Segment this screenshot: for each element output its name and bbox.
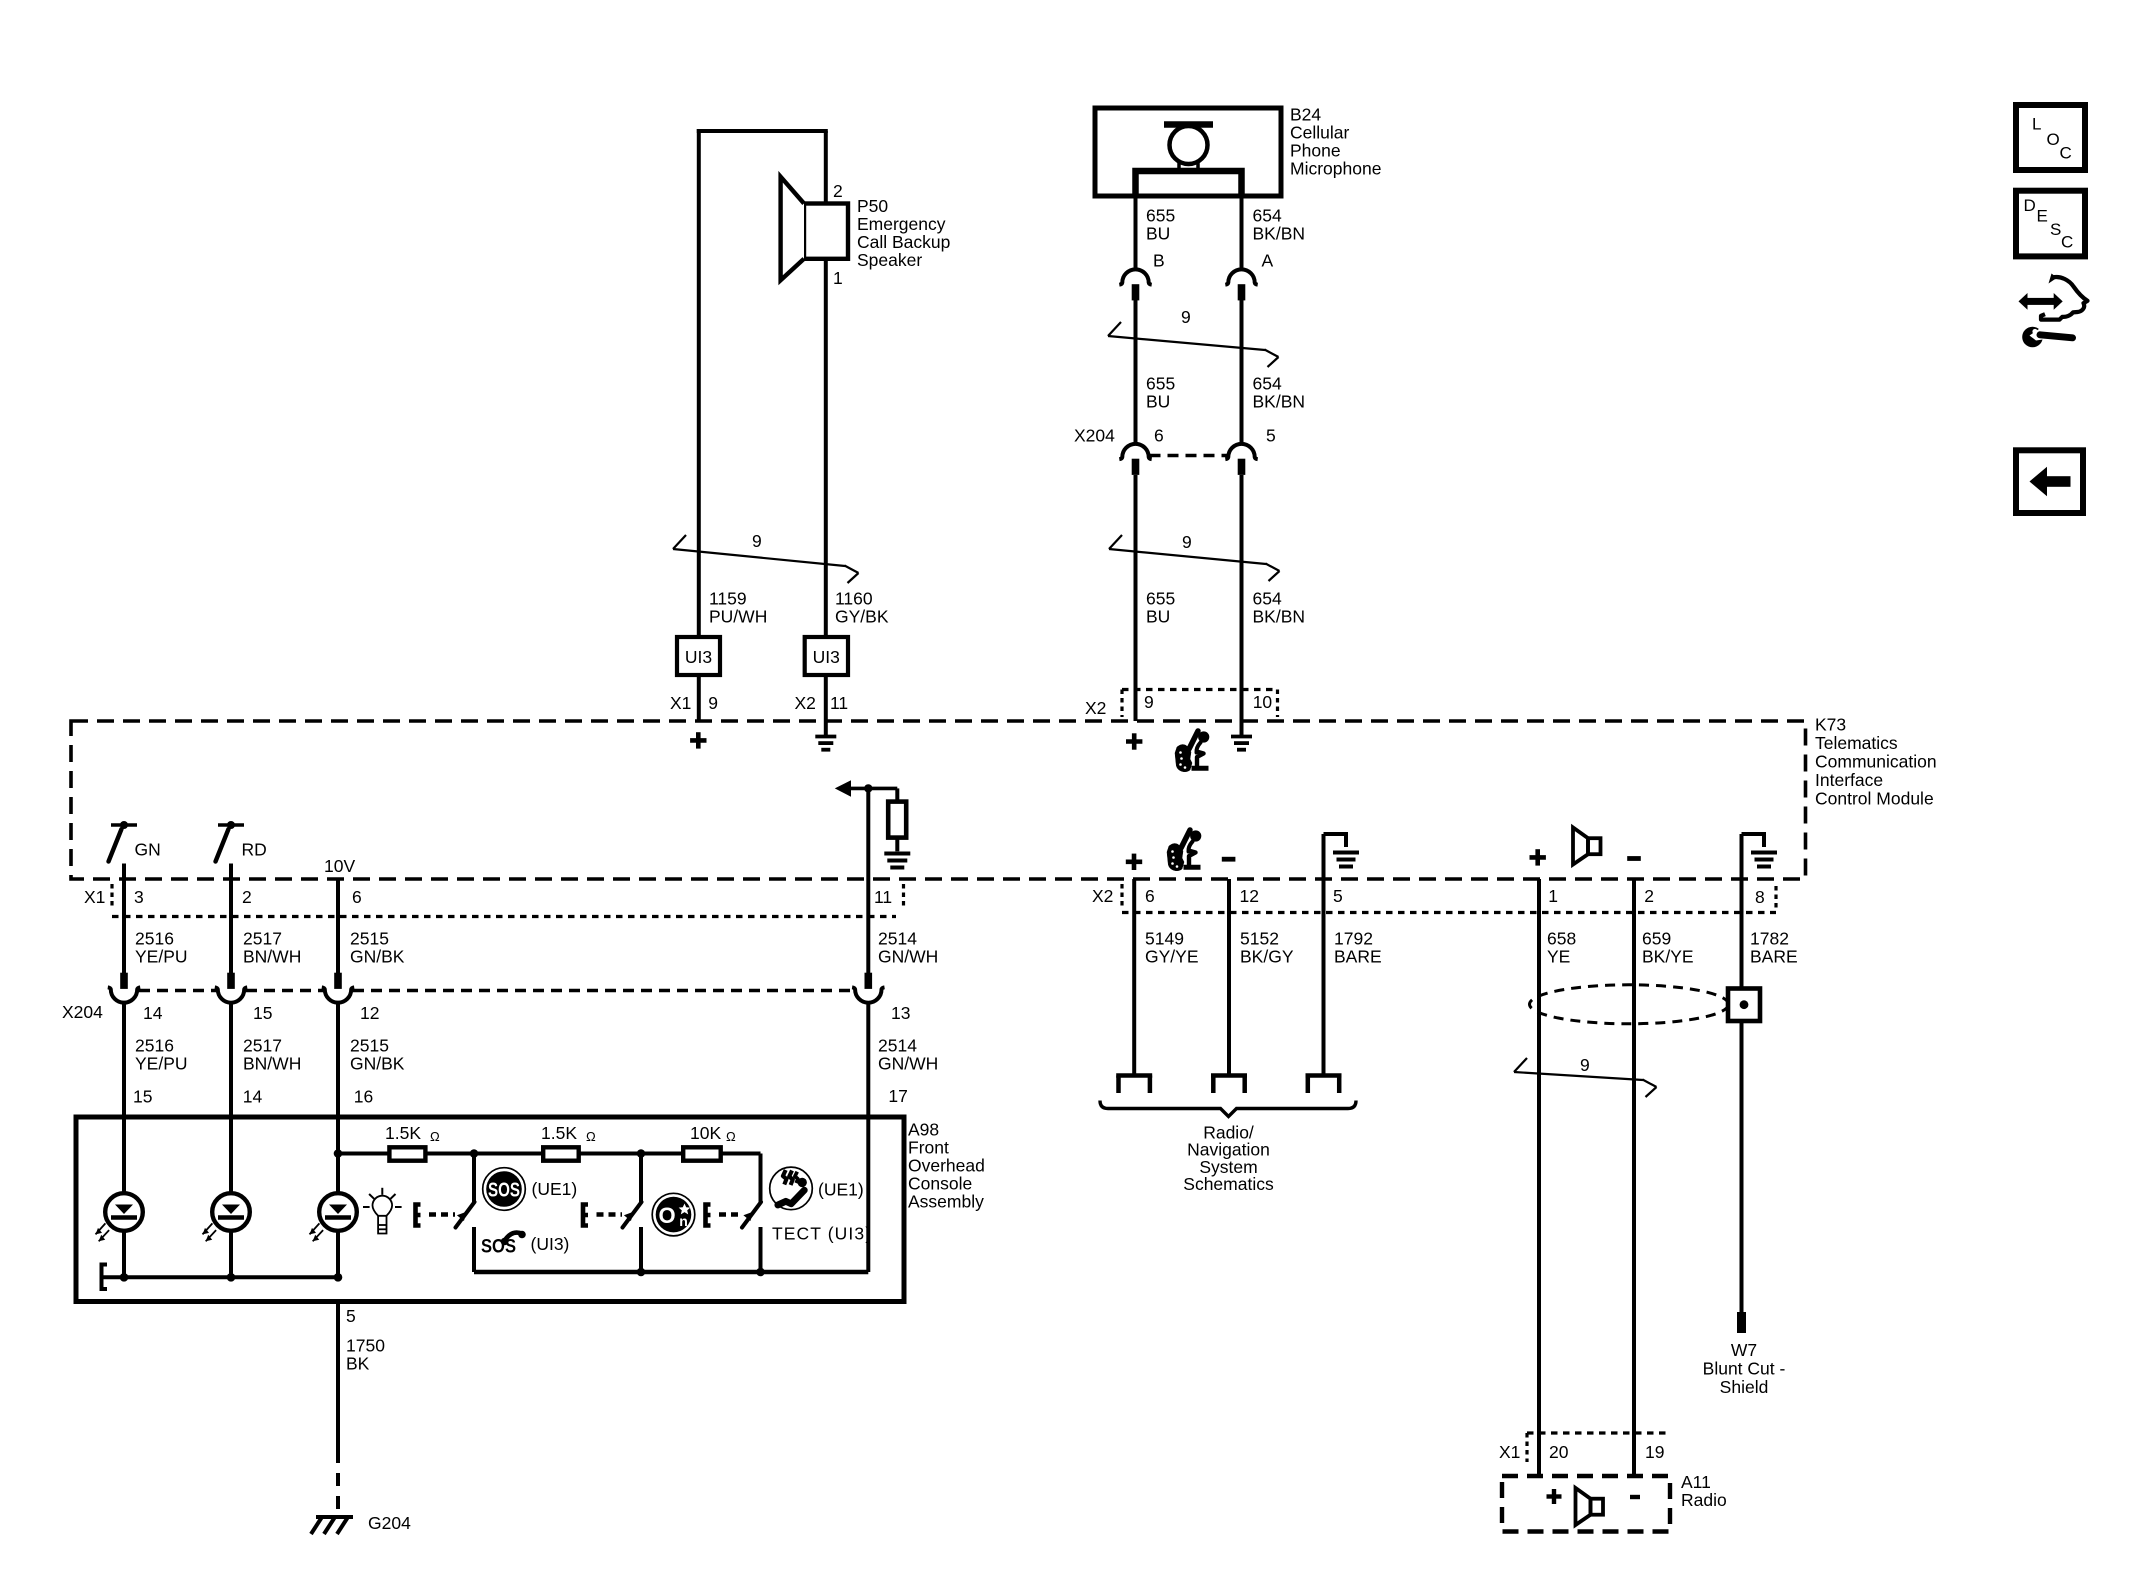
svg-text:12: 12	[360, 1003, 379, 1023]
svg-text:GN/WH: GN/WH	[878, 947, 938, 967]
svg-text:UI3: UI3	[685, 647, 712, 667]
svg-text:5: 5	[1266, 426, 1276, 446]
svg-text:8: 8	[1755, 887, 1765, 907]
svg-text:BU: BU	[1146, 224, 1170, 244]
svg-text:(UE1): (UE1)	[532, 1179, 578, 1199]
svg-text:C: C	[2061, 233, 2073, 252]
svg-text:D: D	[2024, 196, 2036, 215]
svg-text:2: 2	[833, 181, 843, 201]
svg-text:2515: 2515	[350, 1036, 389, 1056]
svg-text:L: L	[2032, 115, 2041, 134]
svg-text:2: 2	[1644, 886, 1654, 906]
svg-text:G204: G204	[368, 1513, 411, 1533]
svg-text:GN/BK: GN/BK	[350, 947, 405, 967]
svg-text:GN: GN	[135, 840, 161, 860]
svg-text:W7: W7	[1731, 1340, 1757, 1360]
svg-text:9: 9	[1580, 1055, 1590, 1075]
svg-text:10V: 10V	[324, 856, 355, 876]
svg-text:Call Backup: Call Backup	[857, 232, 950, 252]
svg-text:Phone: Phone	[1290, 141, 1341, 161]
svg-text:Ω: Ω	[430, 1129, 440, 1144]
svg-text:SOS: SOS	[481, 1236, 516, 1258]
svg-text:BK/BN: BK/BN	[1253, 607, 1306, 627]
svg-text:BU: BU	[1146, 607, 1170, 627]
svg-text:1792: 1792	[1334, 929, 1373, 949]
svg-text:B24: B24	[1290, 105, 1321, 125]
svg-text:1782: 1782	[1750, 929, 1789, 949]
svg-text:X1: X1	[670, 693, 691, 713]
svg-text:2: 2	[242, 887, 252, 907]
svg-text:P50: P50	[857, 196, 888, 216]
svg-text:15: 15	[133, 1087, 152, 1107]
svg-text:X1: X1	[1499, 1442, 1520, 1462]
svg-text:BK/BN: BK/BN	[1253, 392, 1306, 412]
svg-text:5149: 5149	[1145, 929, 1184, 949]
svg-text:Overhead: Overhead	[908, 1156, 985, 1176]
svg-text:B: B	[1153, 251, 1165, 271]
svg-text:9: 9	[1144, 692, 1154, 712]
svg-text:655: 655	[1146, 206, 1175, 226]
svg-text:Telematics: Telematics	[1815, 733, 1898, 753]
svg-text:9: 9	[1182, 532, 1192, 552]
svg-text:6: 6	[1154, 426, 1164, 446]
svg-text:11: 11	[830, 693, 848, 713]
svg-text:658: 658	[1547, 929, 1576, 949]
svg-text:14: 14	[243, 1087, 263, 1107]
svg-text:n: n	[679, 1213, 688, 1229]
svg-text:Ω: Ω	[586, 1129, 596, 1144]
svg-text:17: 17	[888, 1086, 907, 1106]
svg-text:2516: 2516	[135, 929, 174, 949]
svg-text:1: 1	[1548, 886, 1558, 906]
svg-text:BK/YE: BK/YE	[1642, 947, 1694, 967]
svg-text:20: 20	[1549, 1442, 1569, 1462]
svg-text:Assembly: Assembly	[908, 1192, 984, 1212]
svg-text:6: 6	[1145, 886, 1155, 906]
svg-text:1: 1	[833, 268, 843, 288]
svg-text:Control Module: Control Module	[1815, 789, 1934, 809]
svg-text:K73: K73	[1815, 715, 1846, 735]
svg-text:16: 16	[354, 1087, 373, 1107]
svg-text:1160: 1160	[835, 589, 873, 609]
svg-text:BU: BU	[1146, 392, 1170, 412]
svg-text:11: 11	[874, 887, 892, 907]
svg-text:YE/PU: YE/PU	[135, 947, 188, 967]
svg-text:13: 13	[891, 1003, 910, 1023]
svg-text:YE: YE	[1547, 947, 1570, 967]
svg-text:Radio: Radio	[1681, 1490, 1727, 1510]
svg-text:10K: 10K	[690, 1123, 721, 1143]
svg-text:X204: X204	[62, 1002, 103, 1022]
svg-text:PU/WH: PU/WH	[709, 607, 767, 627]
svg-text:15: 15	[253, 1003, 272, 1023]
svg-text:SOS: SOS	[488, 1178, 520, 1201]
svg-text:GN/BK: GN/BK	[350, 1054, 405, 1074]
svg-text:12: 12	[1240, 886, 1259, 906]
svg-text:A11: A11	[1681, 1472, 1711, 1492]
svg-text:BK: BK	[346, 1354, 370, 1374]
svg-text:Ω: Ω	[726, 1129, 736, 1144]
svg-text:2517: 2517	[243, 1036, 282, 1056]
svg-text:BARE: BARE	[1334, 947, 1382, 967]
svg-text:2514: 2514	[878, 929, 917, 949]
svg-text:A: A	[1262, 251, 1274, 271]
svg-text:654: 654	[1253, 589, 1282, 609]
svg-text:3: 3	[134, 887, 144, 907]
svg-text:1.5K: 1.5K	[541, 1123, 577, 1143]
svg-text:S: S	[2050, 220, 2061, 239]
svg-text:A98: A98	[908, 1120, 939, 1140]
svg-text:654: 654	[1253, 206, 1282, 226]
svg-text:1.5K: 1.5K	[385, 1123, 421, 1143]
svg-text:Console: Console	[908, 1174, 972, 1194]
svg-text:X2: X2	[1092, 886, 1113, 906]
svg-text:GN/WH: GN/WH	[878, 1054, 938, 1074]
svg-text:(UE1): (UE1)	[818, 1180, 864, 1200]
svg-text:659: 659	[1642, 929, 1671, 949]
svg-text:BN/WH: BN/WH	[243, 1054, 301, 1074]
svg-text:X2: X2	[1085, 698, 1106, 718]
svg-text:BK/BN: BK/BN	[1253, 224, 1306, 244]
svg-text:9: 9	[752, 531, 762, 551]
svg-text:2515: 2515	[350, 929, 389, 949]
svg-text:1159: 1159	[709, 589, 747, 609]
svg-text:14: 14	[143, 1003, 163, 1023]
svg-text:(UI3): (UI3)	[531, 1234, 570, 1254]
svg-text:2514: 2514	[878, 1036, 917, 1056]
svg-text:BN/WH: BN/WH	[243, 947, 301, 967]
svg-text:10: 10	[1253, 692, 1273, 712]
svg-text:5: 5	[346, 1306, 356, 1326]
svg-text:Shield: Shield	[1720, 1377, 1769, 1397]
svg-text:2516: 2516	[135, 1036, 174, 1056]
svg-text:C: C	[2060, 144, 2072, 163]
svg-text:5152: 5152	[1240, 929, 1279, 949]
svg-text:E: E	[2037, 207, 2048, 226]
svg-text:X2: X2	[795, 693, 816, 713]
svg-text:19: 19	[1645, 1442, 1664, 1462]
svg-text:Schematics: Schematics	[1183, 1174, 1274, 1194]
svg-text:Interface: Interface	[1815, 770, 1883, 790]
svg-text:Front: Front	[908, 1138, 949, 1158]
svg-text:O: O	[658, 1203, 675, 1228]
svg-text:6: 6	[352, 887, 362, 907]
svg-text:TECT (UI3): TECT (UI3)	[772, 1224, 872, 1244]
svg-text:9: 9	[1181, 307, 1191, 327]
svg-text:BK/GY: BK/GY	[1240, 947, 1294, 967]
svg-text:655: 655	[1146, 374, 1175, 394]
svg-text:Cellular: Cellular	[1290, 123, 1349, 143]
svg-text:YE/PU: YE/PU	[135, 1054, 188, 1074]
svg-text:654: 654	[1253, 374, 1282, 394]
svg-text:Speaker: Speaker	[857, 250, 922, 270]
svg-text:RD: RD	[242, 840, 267, 860]
svg-text:Emergency: Emergency	[857, 214, 946, 234]
svg-text:9: 9	[708, 693, 718, 713]
svg-text:X204: X204	[1074, 426, 1115, 446]
svg-text:BARE: BARE	[1750, 947, 1798, 967]
svg-text:Microphone: Microphone	[1290, 159, 1381, 179]
svg-text:GY/YE: GY/YE	[1145, 947, 1199, 967]
svg-text:655: 655	[1146, 589, 1175, 609]
svg-text:Communication: Communication	[1815, 752, 1937, 772]
svg-text:O: O	[2047, 130, 2060, 149]
svg-text:X1: X1	[84, 887, 105, 907]
svg-text:5: 5	[1333, 886, 1343, 906]
svg-text:Blunt Cut -: Blunt Cut -	[1703, 1359, 1786, 1379]
svg-text:UI3: UI3	[813, 647, 840, 667]
svg-text:2517: 2517	[243, 929, 282, 949]
svg-text:1750: 1750	[346, 1336, 385, 1356]
svg-text:GY/BK: GY/BK	[835, 607, 889, 627]
